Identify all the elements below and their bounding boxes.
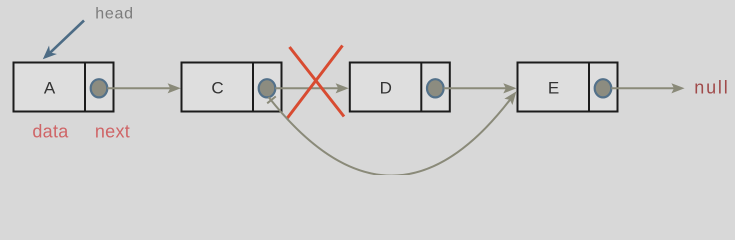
svg-text:head: head xyxy=(95,6,133,23)
red X deletion mark xyxy=(287,46,344,119)
node C box xyxy=(182,63,282,112)
node A pointer circle xyxy=(91,79,108,97)
svg-text:C: C xyxy=(211,78,223,97)
node D box xyxy=(350,63,450,112)
start bar tick xyxy=(267,96,276,103)
node A box xyxy=(14,63,114,112)
head pointer arrow xyxy=(39,21,84,64)
curved arrow C to E (new link) xyxy=(267,88,520,175)
end arrowhead xyxy=(504,88,520,105)
arrow D to E xyxy=(444,83,517,93)
svg-text:null: null xyxy=(694,78,729,98)
node D pointer circle xyxy=(427,79,444,97)
svg-text:data: data xyxy=(32,122,69,142)
arrow E to null xyxy=(611,83,684,93)
svg-text:A: A xyxy=(44,78,56,97)
arrow A to C xyxy=(107,83,181,93)
node E box xyxy=(518,63,618,112)
svg-text:D: D xyxy=(380,78,392,97)
node E pointer circle xyxy=(595,79,612,97)
svg-text:next: next xyxy=(95,122,130,142)
svg-text:E: E xyxy=(548,78,559,97)
arrow C to D (crossed out) xyxy=(275,83,349,93)
node C pointer circle xyxy=(259,79,276,97)
